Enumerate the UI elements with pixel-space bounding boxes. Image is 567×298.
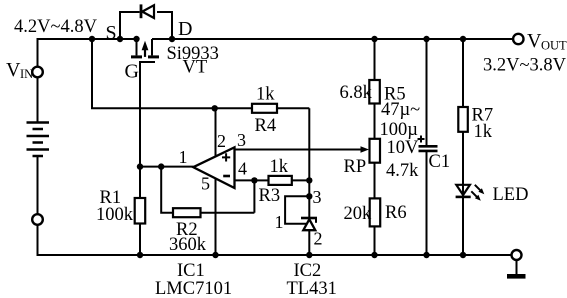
bottom rail node C1 — [423, 252, 429, 258]
wire battery to lower terminal — [37, 156, 39, 214]
svg-text:RP: RP — [344, 157, 367, 177]
potentiometer RP — [370, 139, 381, 163]
svg-text:1k: 1k — [270, 157, 289, 177]
IC2 TL431 — [285, 193, 317, 255]
svg-text:4.7k: 4.7k — [386, 161, 419, 181]
svg-text:10V: 10V — [387, 138, 420, 158]
terminal ground — [507, 250, 526, 279]
svg-text:3: 3 — [237, 130, 246, 150]
svg-text:2: 2 — [217, 131, 226, 151]
svg-text:R3: R3 — [259, 186, 281, 206]
wire top rail left segment — [37, 38, 137, 40]
svg-text:S: S — [106, 22, 117, 44]
svg-text:R6: R6 — [385, 203, 407, 223]
svg-text:4: 4 — [238, 159, 247, 179]
svg-text:TL431: TL431 — [287, 279, 337, 298]
svg-text:5: 5 — [201, 174, 210, 194]
battery GB — [27, 123, 50, 157]
svg-text:R4: R4 — [255, 116, 277, 136]
node source stub — [133, 36, 139, 42]
node output to R2 — [158, 163, 164, 169]
svg-text:V: V — [527, 30, 542, 52]
node gate/R1/output — [137, 163, 143, 169]
node C1 top — [423, 36, 429, 42]
svg-text:LED: LED — [493, 185, 529, 205]
svg-text:4.2V~4.8V: 4.2V~4.8V — [14, 17, 98, 37]
svg-text:100k: 100k — [96, 205, 134, 225]
wire pin 4 — [235, 179, 255, 181]
resistor R7 — [458, 39, 468, 185]
node pin2 junction — [212, 105, 218, 111]
node S — [117, 36, 123, 42]
resistor R3 — [254, 176, 309, 185]
svg-text:100µ: 100µ — [380, 120, 419, 140]
svg-text:G: G — [125, 61, 139, 83]
transistor VT Si9933 — [131, 39, 159, 62]
wire lower terminal to bottom rail — [38, 225, 512, 255]
node R3 right junction — [306, 177, 312, 183]
svg-text:IN: IN — [20, 67, 33, 81]
LED VL — [456, 185, 485, 255]
svg-text:1: 1 — [179, 147, 188, 167]
node pin4/R2/R3 — [251, 177, 257, 183]
resistor R4 — [252, 104, 309, 113]
svg-text:VT: VT — [183, 58, 208, 78]
resistor R2 — [161, 167, 254, 218]
wire body-diode loop — [120, 12, 172, 39]
svg-text:3.2V~3.8V: 3.2V~3.8V — [483, 56, 567, 76]
node R7 top — [460, 36, 466, 42]
svg-text:OUT: OUT — [541, 39, 567, 53]
capacitor C1 — [418, 39, 438, 255]
wire op-amp output (pin 1) — [140, 166, 194, 168]
svg-text:6.8k: 6.8k — [340, 83, 373, 103]
svg-text:1: 1 — [275, 212, 284, 232]
svg-text:1k: 1k — [474, 122, 493, 142]
wire left input drop to VIN terminal — [37, 38, 39, 66]
wire gate lead down to op-amp output node — [139, 62, 141, 167]
bottom rail node LED — [460, 252, 466, 258]
op-amp IC1 LMC7101 — [193, 147, 234, 188]
svg-text:V: V — [6, 59, 21, 81]
svg-text:1k: 1k — [256, 85, 275, 105]
svg-text:2: 2 — [314, 229, 323, 249]
svg-text:47µ~: 47µ~ — [381, 100, 420, 120]
svg-text:360k: 360k — [169, 235, 207, 255]
svg-text:C1: C1 — [429, 152, 451, 172]
wire pin 2 supply — [215, 108, 217, 157]
node gate-branch — [89, 36, 95, 42]
node R5 top — [371, 36, 377, 42]
wire VIN to battery — [37, 78, 39, 122]
bottom rail node pin5 — [212, 252, 218, 258]
bottom rail node R1 — [137, 252, 143, 258]
wire top rail right segment — [152, 38, 513, 40]
svg-text:LMC7101: LMC7101 — [155, 279, 232, 298]
bottom rail node R6 — [371, 252, 377, 258]
svg-text:D: D — [178, 18, 192, 40]
resistor R6 — [370, 163, 381, 255]
bottom rail node TL431 — [306, 252, 312, 258]
wire pin 3 to RP wiper — [235, 149, 362, 151]
resistor R5 — [369, 39, 380, 139]
node D — [169, 36, 175, 42]
terminal VIN — [32, 67, 43, 78]
terminal lower — [32, 214, 43, 225]
wire R4 right vertical down — [308, 108, 310, 196]
svg-text:20k: 20k — [344, 204, 373, 224]
terminal VOUT — [513, 34, 523, 44]
svg-text:3: 3 — [313, 187, 322, 207]
wire V+ run from top rail — [92, 39, 252, 108]
svg-text:IC2: IC2 — [294, 261, 322, 281]
diode VD body diode — [141, 4, 154, 18]
svg-text:IC1: IC1 — [177, 261, 205, 281]
wire pin 5 down to rail — [215, 178, 217, 255]
resistor R1 — [135, 167, 146, 255]
